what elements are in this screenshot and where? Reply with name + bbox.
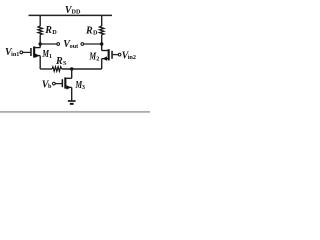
label Vout	[63, 39, 79, 50]
label Vin2	[122, 50, 136, 61]
label Vin1	[5, 47, 19, 58]
wire node X to Vout- terminal	[40, 43, 57, 45]
resistor RD1	[38, 26, 42, 35]
svg-text:out: out	[70, 43, 80, 50]
wire RD2 bottom to M2 drain	[101, 35, 103, 51]
M2 source lead with arrow	[102, 58, 108, 60]
transistor M3	[62, 77, 72, 100]
M3 gate bar	[62, 79, 64, 87]
label RD1 value	[44, 25, 57, 36]
terminal Vin2 circle	[118, 53, 121, 56]
svg-text:in1: in1	[11, 51, 19, 58]
svg-text:S: S	[63, 60, 67, 67]
resistor RS	[52, 67, 62, 72]
wire M1 source to RS left	[40, 68, 52, 70]
node X junction dot	[39, 42, 42, 45]
svg-text:in2: in2	[128, 54, 136, 61]
resistor RD2	[100, 26, 104, 35]
svg-text:3: 3	[82, 84, 85, 91]
M2 channel bar	[108, 49, 110, 60]
M1 source wire down	[39, 56, 41, 69]
wire Vout+ terminal to node Y	[84, 43, 102, 45]
M2 drain lead	[102, 50, 108, 52]
transistor M2	[102, 49, 113, 69]
M1 drain lead	[35, 47, 40, 49]
M3 source wire down to ground	[71, 87, 73, 100]
M3 source lead with arrow	[66, 86, 71, 88]
svg-text:D: D	[93, 30, 98, 37]
label M1	[41, 49, 52, 60]
terminal Vb circle	[53, 82, 56, 85]
M1 channel bar	[33, 46, 35, 57]
svg-text:DD: DD	[72, 8, 81, 15]
page rule (decorative)	[0, 111, 150, 113]
wire M2 gate to Vin2	[113, 54, 119, 56]
svg-text:D: D	[52, 29, 57, 36]
terminal Vin1 circle	[20, 51, 23, 54]
svg-text:R: R	[55, 56, 63, 67]
terminal Vout+ circle	[81, 43, 84, 46]
transistor M1	[30, 46, 40, 69]
terminal Vout- circle	[57, 43, 60, 46]
background	[0, 0, 150, 114]
svg-text:1: 1	[49, 53, 52, 60]
svg-text:R: R	[85, 26, 93, 37]
wire VDD rail	[29, 14, 113, 16]
M3 channel bar	[64, 77, 66, 88]
svg-text:b: b	[48, 83, 52, 90]
wire left branch: VDD to RD1 top	[39, 15, 41, 26]
M1 source lead with arrow	[35, 55, 40, 57]
wire RD1 bottom to M1 drain	[39, 35, 41, 48]
label M2	[89, 51, 100, 62]
label RS value	[55, 56, 67, 67]
svg-text:2: 2	[96, 55, 99, 62]
M3 drain lead	[66, 77, 71, 79]
node Y junction dot	[100, 42, 103, 45]
M2 gate bar	[111, 51, 113, 59]
node P junction dot	[70, 67, 73, 70]
M2 source wire down	[101, 59, 103, 69]
wire RS right to M2 source	[62, 68, 102, 70]
wire right branch: VDD to RD2 top	[101, 15, 103, 26]
label M3	[75, 80, 85, 91]
wire node P down to M3 drain	[71, 69, 73, 78]
svg-text:R: R	[44, 25, 52, 36]
wire Vin1 to M1 gate	[23, 51, 31, 53]
net VDD label	[65, 5, 81, 16]
label Vb	[42, 79, 52, 90]
wire Vb to M3 gate	[55, 83, 61, 85]
M1 gate bar	[30, 48, 32, 56]
ground symbol	[68, 100, 76, 105]
label RD2 value	[85, 26, 98, 37]
